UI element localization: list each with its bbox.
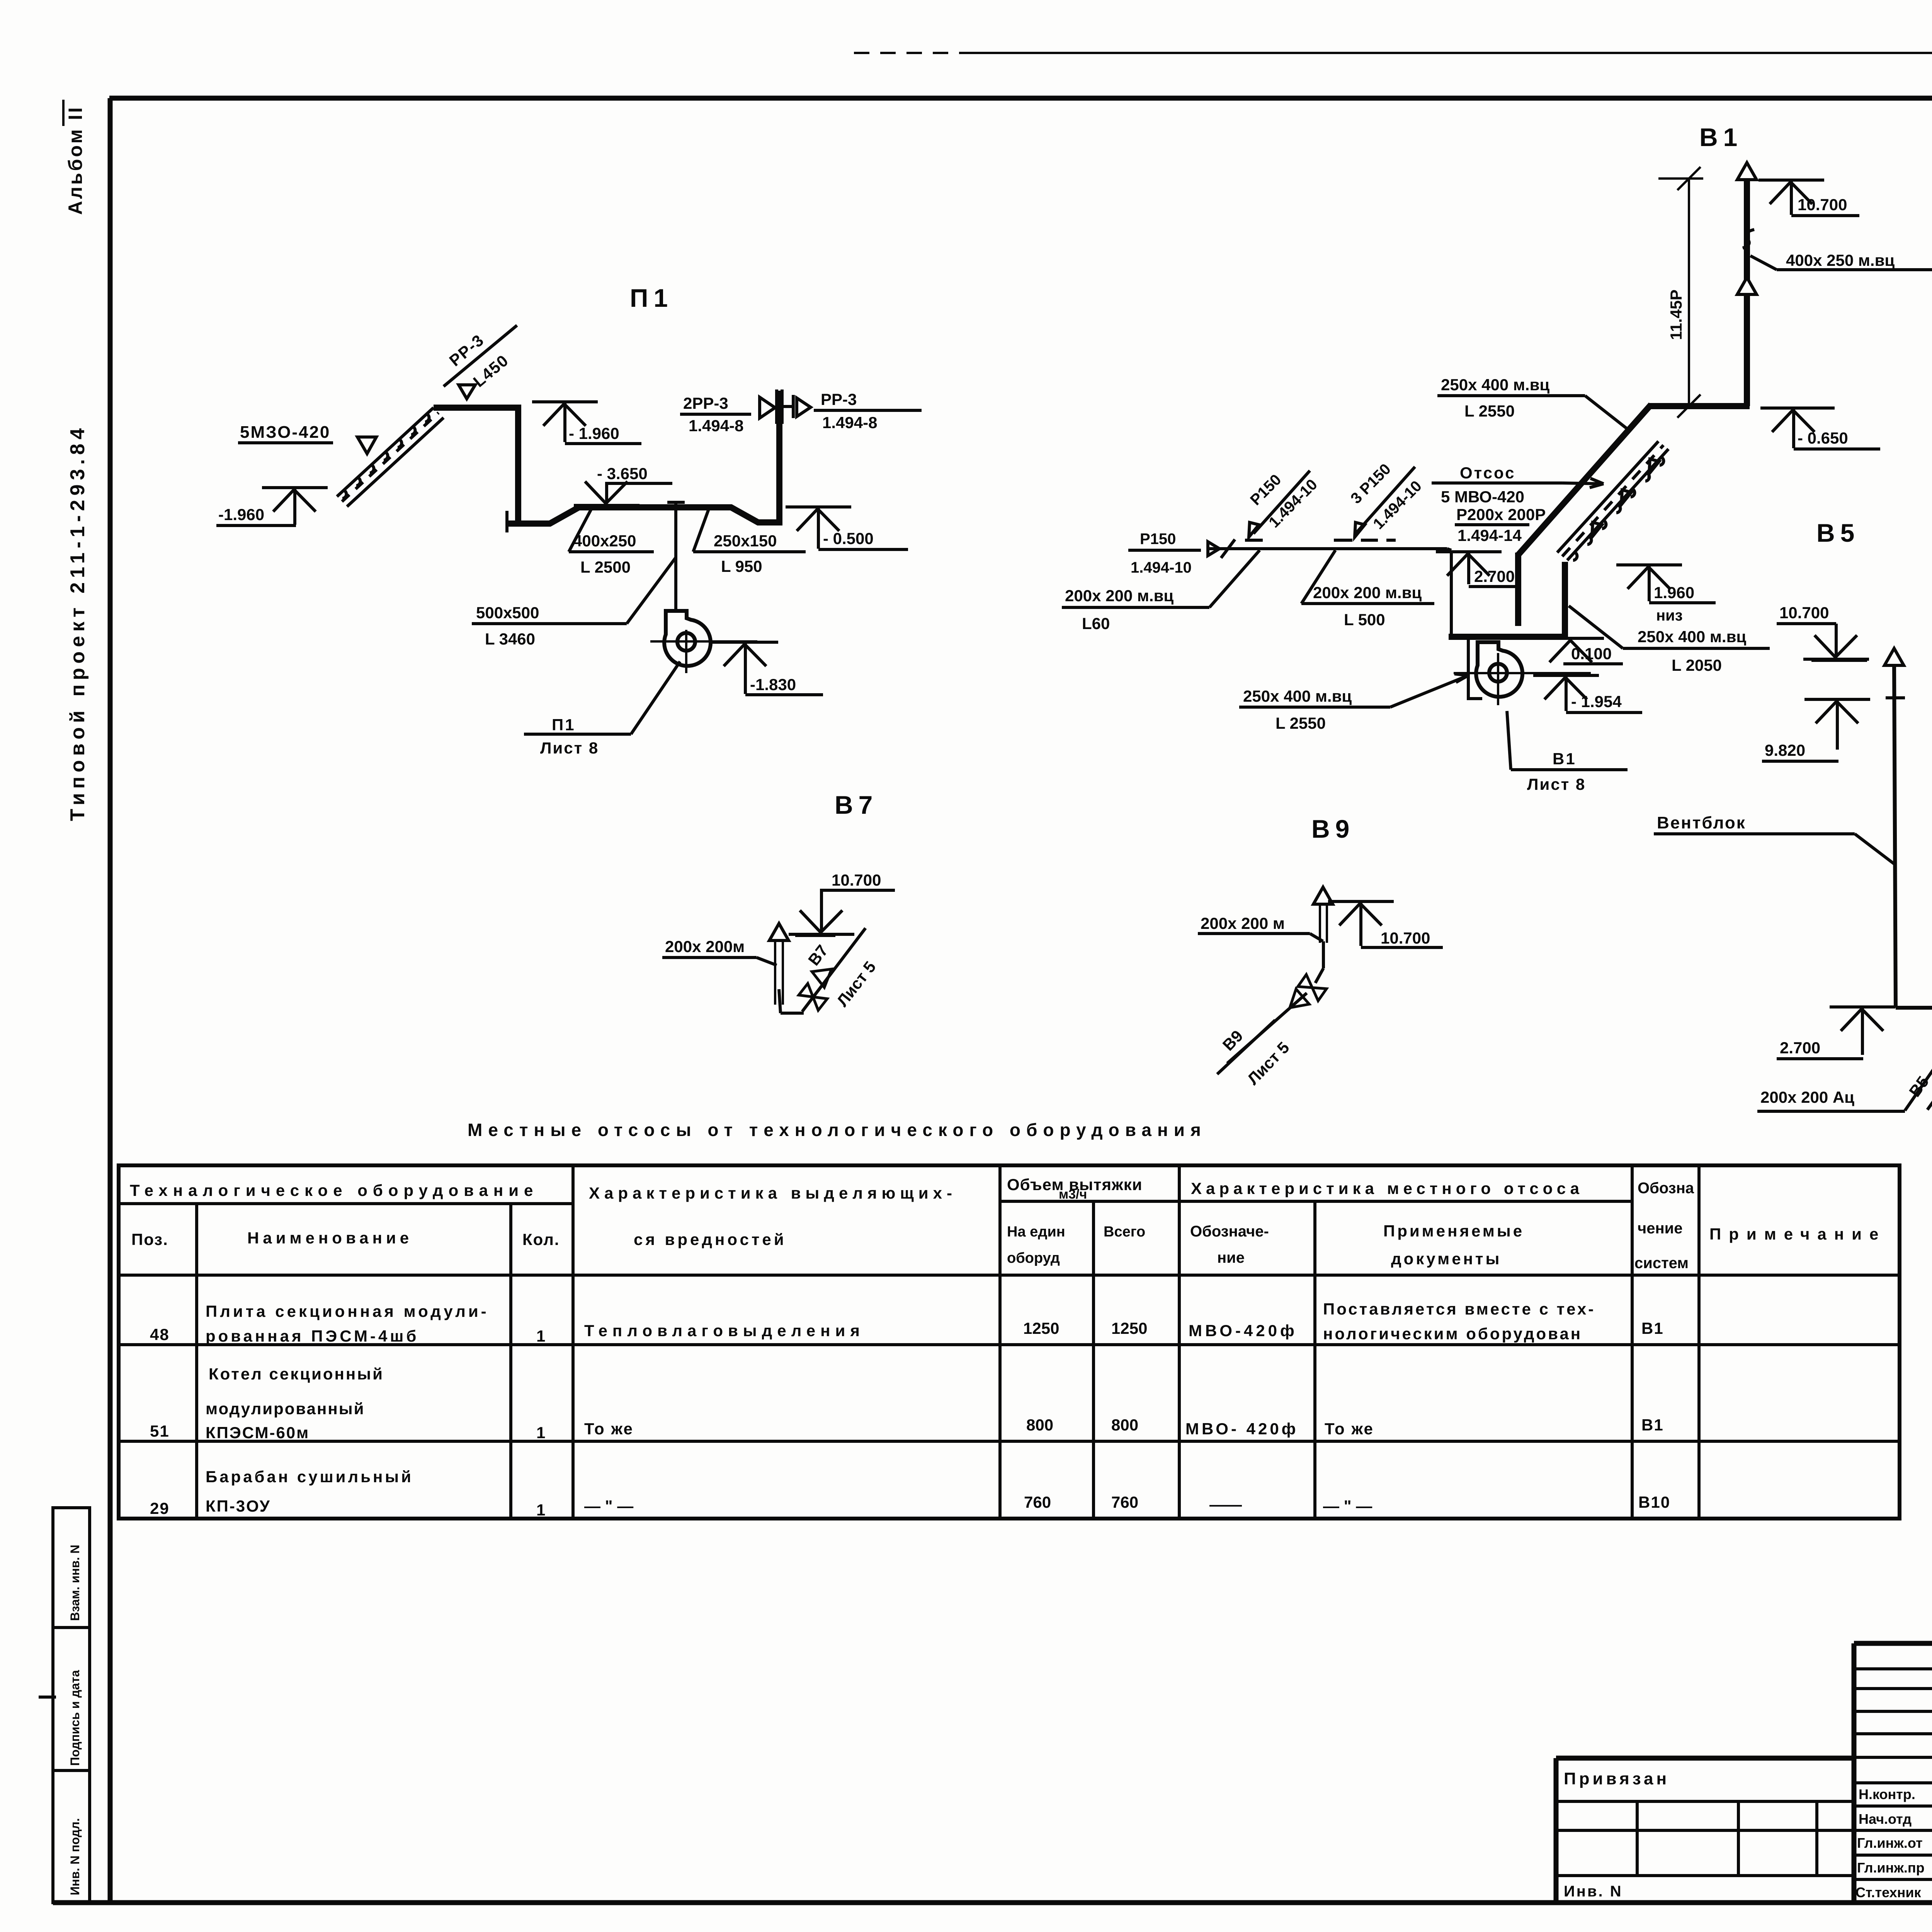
svg-text:РР-3: РР-3 bbox=[821, 390, 857, 408]
elevation 2.700 inside box bbox=[1436, 552, 1518, 587]
svg-text:м3/ч: м3/ч bbox=[1059, 1187, 1087, 1202]
svg-text:5 МВО-420: 5 МВО-420 bbox=[1441, 488, 1524, 506]
svg-text:250x150: 250x150 bbox=[714, 532, 777, 550]
label В5 Лист 4 (rotated) bbox=[1905, 1046, 1932, 1122]
svg-text:В9: В9 bbox=[1311, 815, 1355, 843]
label 250x400 м.вц L2050 bbox=[1569, 606, 1770, 674]
svg-text:250x 400 м.вц: 250x 400 м.вц bbox=[1638, 628, 1746, 646]
svg-text:800: 800 bbox=[1111, 1416, 1138, 1434]
margin box Инв. N подл. bbox=[53, 1770, 90, 1903]
elevation -1.830 bbox=[713, 642, 823, 695]
В7 riser with arrow bbox=[769, 923, 789, 1013]
label Р150 1.494-10 (left horizontal) bbox=[1128, 531, 1201, 576]
margin box Подпись и дата bbox=[53, 1628, 90, 1770]
svg-text:- 1.960: - 1.960 bbox=[569, 424, 619, 442]
border frame top strip line bbox=[854, 52, 1932, 54]
label 250x400 м.вц L2550 (upper) bbox=[1437, 376, 1628, 430]
elevation -1.954 bbox=[1533, 675, 1642, 713]
label РР-3 1.494-8 right bbox=[814, 390, 922, 432]
svg-text:Поз.: Поз. bbox=[131, 1230, 168, 1248]
svg-text:— " —: — " — bbox=[584, 1497, 633, 1515]
svg-text:Отсос: Отсос bbox=[1460, 464, 1516, 482]
elevation 10.700 (В7, arrow down) bbox=[789, 871, 895, 935]
svg-text:Лист 5: Лист 5 bbox=[1244, 1038, 1293, 1088]
svg-text:800: 800 bbox=[1026, 1416, 1053, 1434]
svg-text:10.700: 10.700 bbox=[1779, 604, 1829, 622]
margin text Альбом II bbox=[63, 100, 86, 215]
svg-text:То же: То же bbox=[1325, 1420, 1374, 1438]
elevation 10.700 (В9) bbox=[1328, 901, 1443, 947]
В9 flow arrow bbox=[1283, 989, 1309, 1015]
damper flag 2 bbox=[1355, 522, 1365, 537]
В1 roof riser (thick) bbox=[1737, 163, 1757, 406]
frame top border bbox=[109, 96, 1932, 101]
svg-text:10.700: 10.700 bbox=[1381, 929, 1430, 947]
row 29 bbox=[150, 1468, 1670, 1519]
svg-text:500x500: 500x500 bbox=[476, 604, 539, 622]
П1 intake louvre duct (hatched diagonal) bbox=[337, 408, 444, 507]
svg-text:5МЗО-420: 5МЗО-420 bbox=[240, 423, 330, 442]
label Р150 1.494-10 (rotated) bbox=[1247, 471, 1321, 534]
elevation 2.700 (В5 bottom) bbox=[1777, 1007, 1895, 1059]
svg-text:Поставляется вместе с тех-: Поставляется вместе с тех- bbox=[1323, 1300, 1595, 1318]
margin box Взам.инв.N bbox=[53, 1508, 90, 1628]
margin tick bbox=[39, 1696, 56, 1699]
П1 tee to fan bbox=[667, 502, 685, 611]
svg-text:Обозна: Обозна bbox=[1638, 1180, 1694, 1197]
svg-text:Р150: Р150 bbox=[1140, 531, 1176, 548]
svg-text:низ: низ bbox=[1656, 607, 1683, 624]
В1 vertical drop inside box (thick) bbox=[1515, 553, 1521, 626]
duct start arrow and slash bbox=[1208, 542, 1219, 556]
svg-text:Лист 5: Лист 5 bbox=[833, 958, 879, 1010]
П1 intake damper triangle bbox=[357, 437, 376, 454]
svg-text:1.494-8: 1.494-8 bbox=[689, 417, 743, 435]
title block outer lines bbox=[1556, 1643, 1932, 1903]
svg-text:51: 51 bbox=[150, 1422, 170, 1440]
svg-text:- 0.500: - 0.500 bbox=[823, 529, 874, 548]
svg-text:1250: 1250 bbox=[1111, 1319, 1147, 1337]
label П1 Лист 8 (leader to fan) bbox=[524, 662, 680, 757]
svg-text:МВО-420ф: МВО-420ф bbox=[1189, 1321, 1298, 1340]
svg-text:Характеристика выделяющих-: Характеристика выделяющих- bbox=[589, 1184, 957, 1202]
label 250x400 м.вц L2550 (lower left) bbox=[1239, 674, 1468, 732]
svg-text:В10: В10 bbox=[1638, 1493, 1670, 1511]
svg-text:То же: То же bbox=[584, 1420, 634, 1438]
svg-text:10.700: 10.700 bbox=[1798, 196, 1847, 214]
label 200x200м bbox=[662, 937, 777, 965]
svg-text:9.820: 9.820 bbox=[1765, 741, 1805, 759]
В5 bottom elbow bbox=[1896, 1006, 1932, 1010]
svg-text:Подпись и дата: Подпись и дата bbox=[68, 1670, 82, 1766]
П1 duct foot tick bbox=[505, 511, 509, 532]
svg-text:КПЭСМ-60м: КПЭСМ-60м bbox=[206, 1423, 310, 1442]
В9 bow-tie valve bbox=[1298, 975, 1327, 1001]
svg-text:На един: На един bbox=[1007, 1224, 1065, 1240]
svg-text:Тепловлаговыделения: Тепловлаговыделения bbox=[584, 1321, 865, 1340]
elevation 0.100 bbox=[1538, 638, 1623, 664]
svg-text:10.700: 10.700 bbox=[832, 871, 881, 889]
svg-text:Применяемые: Применяемые bbox=[1383, 1222, 1524, 1240]
svg-text:L 2050: L 2050 bbox=[1672, 656, 1722, 674]
svg-text:В1: В1 bbox=[1553, 750, 1577, 768]
svg-text:Наименование: Наименование bbox=[247, 1229, 413, 1247]
svg-text:1: 1 bbox=[536, 1327, 545, 1345]
elevation -1.960 right bbox=[532, 402, 641, 444]
svg-text:ся вредностей: ся вредностей bbox=[634, 1230, 787, 1248]
svg-text:Кол.: Кол. bbox=[522, 1230, 560, 1248]
svg-text:рованная ПЭСМ-4шб: рованная ПЭСМ-4шб bbox=[206, 1327, 419, 1345]
dimension line 11.45Р bbox=[1658, 167, 1703, 418]
svg-text:РР-3: РР-3 bbox=[446, 331, 488, 370]
label В1 Лист 8 bbox=[1507, 711, 1628, 793]
svg-text:-1.960: -1.960 bbox=[218, 505, 264, 524]
svg-text:0.100: 0.100 bbox=[1571, 645, 1612, 663]
svg-text:200x 200 м: 200x 200 м bbox=[1201, 914, 1285, 932]
svg-text:L 2550: L 2550 bbox=[1276, 714, 1326, 732]
label 5МЗО-420 bbox=[238, 423, 333, 443]
П1 duct: top run and left drop bbox=[434, 408, 518, 521]
elevation 10.700 (В5 top, arrow down) bbox=[1777, 604, 1869, 660]
svg-text:Всего: Всего bbox=[1104, 1224, 1145, 1240]
frame left border bbox=[108, 98, 113, 1903]
label 2РР-3 1.494-8 bbox=[680, 394, 751, 435]
flags on В5 louvre bbox=[1592, 459, 1659, 537]
label 200x200 м (В9) bbox=[1198, 914, 1323, 941]
svg-text:В1: В1 bbox=[1699, 123, 1743, 151]
svg-text:В7: В7 bbox=[804, 941, 832, 969]
svg-text:Барабан сушильный: Барабан сушильный bbox=[206, 1468, 413, 1486]
svg-text:1: 1 bbox=[536, 1501, 545, 1519]
label 250x150 L950 bbox=[693, 509, 806, 575]
svg-text:2.700: 2.700 bbox=[1780, 1039, 1820, 1057]
svg-text:1.494-14: 1.494-14 bbox=[1458, 526, 1522, 544]
svg-text:2.700: 2.700 bbox=[1474, 567, 1515, 585]
svg-text:Гл.инж.пр: Гл.инж.пр bbox=[1857, 1860, 1925, 1876]
svg-text:документы: документы bbox=[1391, 1250, 1502, 1268]
svg-text:200x 200 м.вц: 200x 200 м.вц bbox=[1065, 587, 1173, 605]
svg-text:-1.830: -1.830 bbox=[750, 675, 796, 694]
label 400x250 м.вц bbox=[1750, 251, 1932, 270]
svg-text:L 950: L 950 bbox=[721, 557, 762, 575]
svg-text:систем: систем bbox=[1634, 1255, 1689, 1272]
svg-text:760: 760 bbox=[1111, 1493, 1138, 1511]
elevation 10.700 (В1 top) bbox=[1759, 180, 1859, 216]
РР-3 L450 label (rotated leader) bbox=[444, 325, 517, 391]
elevation -0.500 bbox=[786, 507, 908, 549]
svg-text:Обозначе-: Обозначе- bbox=[1190, 1223, 1269, 1240]
svg-text:Инв. N: Инв. N bbox=[1564, 1883, 1623, 1900]
svg-text:Р200x 200Р: Р200x 200Р bbox=[1456, 505, 1546, 524]
svg-text:1: 1 bbox=[536, 1423, 545, 1442]
svg-text:Н.контр.: Н.контр. bbox=[1859, 1786, 1915, 1802]
svg-text:Инв. N подл.: Инв. N подл. bbox=[68, 1818, 82, 1895]
elevation 1.960 низ bbox=[1616, 565, 1716, 624]
П1 duct bottom run with transitions bbox=[509, 391, 779, 524]
svg-text:Нач.отд: Нач.отд bbox=[1859, 1811, 1912, 1827]
table header texts bbox=[130, 1175, 1886, 1272]
svg-text:- 1.954: - 1.954 bbox=[1571, 692, 1622, 711]
svg-text:——: —— bbox=[1209, 1495, 1242, 1514]
svg-text:1.494-8: 1.494-8 bbox=[822, 413, 877, 432]
svg-text:L60: L60 bbox=[1082, 614, 1110, 633]
svg-text:Типовой проект 211-1-293.84: Типовой проект 211-1-293.84 bbox=[66, 424, 89, 821]
svg-text:200x 200 Ац: 200x 200 Ац bbox=[1760, 1088, 1854, 1106]
svg-text:В1: В1 bbox=[1641, 1319, 1664, 1337]
row 48 bbox=[150, 1300, 1664, 1345]
label 200x200 Ац bbox=[1757, 1088, 1905, 1111]
elevation 9.820 bbox=[1762, 699, 1870, 761]
РР-3 valves at П1 riser top bbox=[760, 389, 811, 424]
РР-3 damper flag on П1 bbox=[459, 385, 475, 399]
label В9 Лист 5 (rotated) bbox=[1217, 1020, 1293, 1088]
svg-text:Плита секционная модули-: Плита секционная модули- bbox=[206, 1302, 489, 1320]
label 400x250 L2500 bbox=[569, 509, 654, 576]
В1 plenum box bbox=[1450, 550, 1453, 637]
В5 ventblock louvre duct (hatched diagonal) bbox=[1557, 441, 1668, 560]
fan В1 bbox=[1454, 642, 1591, 705]
svg-text:Ст.техник: Ст.техник bbox=[1855, 1884, 1922, 1900]
svg-text:ние: ние bbox=[1217, 1249, 1245, 1266]
svg-text:Местные отсосы от технологи: Местные отсосы от технологического обору… bbox=[468, 1120, 1207, 1140]
svg-text:L 2500: L 2500 bbox=[580, 558, 631, 576]
svg-text:Привязан: Привязан bbox=[1564, 1769, 1670, 1788]
frame bottom border bbox=[53, 1900, 1932, 1905]
В7 bottom elbow and diagonal bbox=[781, 928, 866, 1013]
В5 diagonal to sheet 4 bbox=[1905, 1008, 1932, 1111]
svg-text:В1: В1 bbox=[1641, 1416, 1664, 1434]
svg-text:- 3.650: - 3.650 bbox=[597, 464, 648, 483]
В7 flow arrow bbox=[812, 961, 838, 988]
svg-text:760: 760 bbox=[1024, 1493, 1051, 1511]
svg-text:11.45Р: 11.45Р bbox=[1667, 289, 1685, 340]
svg-text:200x 200м: 200x 200м bbox=[665, 937, 745, 956]
svg-text:П1: П1 bbox=[630, 284, 673, 312]
label 500x500 L3460 bbox=[472, 558, 675, 648]
привязан area grid bbox=[1556, 1801, 1854, 1876]
svg-text:L 3460: L 3460 bbox=[485, 630, 535, 648]
svg-text:В7: В7 bbox=[835, 791, 878, 819]
svg-text:29: 29 bbox=[150, 1499, 170, 1517]
label 200x200 м.вц L60 bbox=[1062, 550, 1260, 633]
svg-text:МВО- 420ф: МВО- 420ф bbox=[1185, 1420, 1298, 1438]
svg-text:П1: П1 bbox=[552, 716, 576, 734]
label Вентблок with leader bbox=[1654, 813, 1895, 865]
В9 diagonal to sheet 5 bbox=[1227, 993, 1307, 1063]
svg-text:КП-3ОУ: КП-3ОУ bbox=[206, 1497, 271, 1515]
svg-text:Характеристика местного отс: Характеристика местного отсоса bbox=[1191, 1179, 1583, 1197]
svg-text:400x250: 400x250 bbox=[573, 532, 636, 550]
svg-text:— " —: — " — bbox=[1323, 1497, 1372, 1515]
svg-text:Взам. инв. N: Взам. инв. N bbox=[68, 1545, 82, 1621]
label Отсос 5МВО-420 Р200x200Р 1.494-14 bbox=[1432, 464, 1604, 544]
label В7 Лист 5 (rotated) bbox=[804, 941, 879, 1010]
В1 main diagonal duct (thick) bbox=[1518, 405, 1651, 555]
svg-text:1250: 1250 bbox=[1023, 1319, 1059, 1337]
fan inlet bracket bbox=[1468, 638, 1482, 699]
svg-text:L 2550: L 2550 bbox=[1464, 402, 1515, 420]
svg-text:оборуд: оборуд bbox=[1007, 1250, 1060, 1266]
label 3 Р150 1.494-10 (rotated) bbox=[1347, 461, 1425, 534]
svg-text:250x 400 м.вц: 250x 400 м.вц bbox=[1243, 687, 1352, 705]
elevation -3.650 bbox=[574, 464, 672, 505]
В1 riser elbow to diagonal bbox=[1648, 403, 1750, 409]
svg-text:1.494-10: 1.494-10 bbox=[1131, 559, 1192, 576]
label 200x200 м.вц L500 bbox=[1301, 550, 1434, 629]
revision grid horizontals bbox=[1854, 1669, 1932, 1879]
svg-text:200x 200 м.вц: 200x 200 м.вц bbox=[1313, 583, 1422, 602]
В9 riser bbox=[1313, 887, 1333, 983]
svg-text:L 500: L 500 bbox=[1344, 611, 1385, 629]
damper flag 1 bbox=[1249, 522, 1259, 537]
svg-text:1.960: 1.960 bbox=[1654, 583, 1694, 602]
svg-text:2РР-3: 2РР-3 bbox=[683, 394, 728, 412]
dashes on suction duct bbox=[1245, 539, 1396, 542]
В7 bow-tie valve bbox=[799, 983, 827, 1010]
В1 local suction thin duct bbox=[1209, 549, 1451, 550]
П1 fan (centrifugal) bbox=[650, 611, 757, 673]
signature labels bbox=[1855, 1786, 1925, 1900]
svg-text:модулированный: модулированный bbox=[206, 1400, 365, 1418]
svg-text:нологическим оборудован: нологическим оборудован bbox=[1323, 1325, 1582, 1343]
elevation -1.960 left bbox=[216, 488, 328, 526]
svg-text:- 0.650: - 0.650 bbox=[1798, 429, 1848, 447]
elevation -0.650 bbox=[1760, 408, 1880, 449]
svg-text:Лист 8: Лист 8 bbox=[540, 739, 599, 757]
row 51 bbox=[150, 1365, 1664, 1442]
svg-text:48: 48 bbox=[150, 1325, 170, 1344]
svg-text:400x 250 м.вц: 400x 250 м.вц bbox=[1786, 251, 1895, 269]
svg-text:В5: В5 bbox=[1816, 519, 1860, 547]
В5 riser bbox=[1884, 648, 1905, 1008]
svg-text:Лист 8: Лист 8 bbox=[1527, 775, 1586, 793]
svg-text:Техналогическое оборудование: Техналогическое оборудование bbox=[130, 1181, 538, 1199]
svg-text:250x 400 м.вц: 250x 400 м.вц bbox=[1441, 376, 1549, 394]
svg-text:Примечание: Примечание bbox=[1709, 1225, 1886, 1243]
svg-text:Котел секционный: Котел секционный bbox=[209, 1365, 384, 1383]
svg-text:Гл.инж.от: Гл.инж.от bbox=[1857, 1835, 1923, 1851]
break squiggle bbox=[1743, 230, 1754, 248]
svg-text:чение: чение bbox=[1638, 1220, 1682, 1237]
svg-text:Вентблок: Вентблок bbox=[1657, 813, 1746, 832]
svg-text:Альбом II: Альбом II bbox=[65, 105, 86, 215]
